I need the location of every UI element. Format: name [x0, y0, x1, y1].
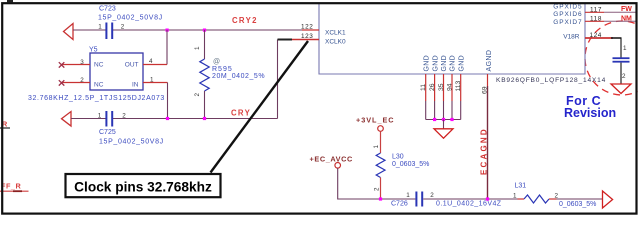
- junction: [486, 197, 489, 200]
- svg-text:CRY2: CRY2: [232, 16, 258, 25]
- no-connect X pin 2: [59, 80, 65, 85]
- inductor L30: [373, 131, 429, 199]
- svg-text:11: 11: [420, 84, 427, 91]
- wire to crystal OUT: [166, 30, 168, 65]
- svg-text:0.1U_0402_16V4Z: 0.1U_0402_16V4Z: [436, 201, 502, 208]
- wire from +EC_AVCC: [338, 168, 416, 199]
- capacitor C725: [98, 111, 164, 146]
- capacitor C726: [391, 192, 502, 208]
- GND pin 113: [455, 55, 465, 119]
- svg-text:1: 1: [406, 192, 410, 199]
- ground at V18R cap: [611, 84, 631, 94]
- no-connect X pin 3: [59, 62, 65, 67]
- pin 123 XCLK0: [278, 39, 320, 41]
- svg-text:2: 2: [430, 192, 434, 199]
- svg-text:ECAGND: ECAGND: [480, 127, 489, 175]
- svg-text:113: 113: [455, 80, 462, 91]
- svg-text:XCLK0: XCLK0: [325, 39, 346, 46]
- capacitor at V18R: [613, 45, 630, 80]
- svg-text:GPXID5: GPXID5: [553, 4, 582, 11]
- wire crystal IN down: [167, 83, 169, 119]
- svg-text:0_0603_5%: 0_0603_5%: [392, 161, 429, 168]
- svg-text:20M_0402_5%: 20M_0402_5%: [212, 73, 265, 80]
- junction: [433, 118, 436, 121]
- inductor L31: [513, 183, 596, 209]
- junction: [203, 117, 206, 120]
- resistor R595: [194, 30, 265, 119]
- svg-text:118: 118: [590, 15, 602, 22]
- svg-text:1: 1: [98, 24, 102, 31]
- svg-text:1: 1: [194, 46, 201, 50]
- svg-text:GND: GND: [450, 55, 457, 71]
- wire V18R down: [620, 38, 622, 58]
- pin 124 V18R: [585, 37, 613, 39]
- pin 117 GPXID6: [585, 11, 604, 13]
- net label ECAGND: [480, 127, 489, 175]
- svg-text:32.768KHZ_12.5P_1TJS125DJ2A073: 32.768KHZ_12.5P_1TJS125DJ2A073: [28, 95, 165, 102]
- pin 69 AGND: [487, 74, 489, 86]
- wire CRY right of C725: [113, 118, 278, 120]
- svg-text:C723: C723: [99, 6, 116, 13]
- crystal Y5: [89, 47, 143, 91]
- svg-text:3: 3: [80, 59, 84, 66]
- wire cap down: [620, 63, 622, 84]
- svg-text:Revision: Revision: [564, 106, 616, 120]
- capacitor C723: [98, 6, 163, 40]
- svg-text:94: 94: [447, 83, 454, 91]
- svg-text:35: 35: [438, 83, 445, 91]
- svg-text:1: 1: [98, 113, 102, 120]
- svg-text:GND: GND: [423, 55, 430, 71]
- svg-text:+3VL_EC: +3VL_EC: [356, 116, 395, 125]
- GND pin 11: [420, 55, 430, 119]
- pin 4 OUT lead: [143, 64, 167, 66]
- svg-text:Clock pins 32.768khz: Clock pins 32.768khz: [74, 180, 212, 195]
- wire L31 to off-page: [557, 198, 603, 200]
- svg-text:0_0603_5%: 0_0603_5%: [559, 201, 596, 208]
- EC controller block KB926QFB0: [319, 3, 585, 75]
- junction: [450, 118, 453, 121]
- svg-text:L30: L30: [392, 154, 404, 161]
- junction: [379, 197, 382, 200]
- GND pin 35: [438, 55, 448, 119]
- svg-text:124: 124: [590, 32, 602, 39]
- GND pin 26: [429, 55, 439, 119]
- svg-text:1: 1: [623, 45, 627, 52]
- svg-text:4: 4: [149, 58, 153, 65]
- pin 118 GPXID7: [585, 20, 604, 22]
- pin 3 lead: [61, 64, 90, 66]
- provision note dashed circle: [585, 21, 640, 95]
- svg-text:C725: C725: [99, 129, 116, 136]
- svg-text:GPXID7: GPXID7: [553, 19, 582, 26]
- wire CRY: [71, 118, 106, 120]
- svg-text:NC: NC: [94, 62, 104, 69]
- wire CRY up to pin 123: [277, 40, 279, 119]
- svg-text:2: 2: [194, 93, 201, 97]
- svg-text:OUT: OUT: [125, 62, 139, 69]
- svg-text:1: 1: [513, 193, 517, 200]
- svg-text:2: 2: [121, 24, 125, 31]
- junction: [203, 29, 206, 32]
- svg-text:15P_0402_50V8J: 15P_0402_50V8J: [99, 139, 164, 146]
- svg-text:NC: NC: [94, 82, 104, 89]
- off-page connector CRY left: [62, 112, 72, 127]
- junction: [166, 117, 169, 120]
- junction: [166, 29, 169, 32]
- wire CRY2 right of C723: [113, 29, 302, 31]
- svg-text:1: 1: [150, 77, 154, 84]
- svg-text:2: 2: [622, 73, 626, 80]
- off-page connector right: [603, 191, 613, 208]
- svg-text:R595: R595: [212, 66, 233, 73]
- svg-text:15P_0402_50V8J: 15P_0402_50V8J: [98, 15, 163, 22]
- svg-text:+EC_AVCC: +EC_AVCC: [310, 155, 354, 164]
- GND bus wire: [426, 119, 461, 121]
- svg-text:2: 2: [374, 187, 381, 191]
- svg-text:KB926QFB0_LQFP128_14X14: KB926QFB0_LQFP128_14X14: [496, 77, 606, 84]
- callout leader line: [211, 41, 309, 173]
- svg-text:2: 2: [555, 192, 559, 199]
- svg-text:2: 2: [122, 113, 126, 120]
- wire CRY2: [73, 29, 106, 31]
- off-page connector CRY2 left: [64, 24, 74, 40]
- ground: [434, 129, 453, 138]
- svg-text:L31: L31: [515, 183, 527, 190]
- svg-text:FW: FW: [621, 6, 632, 13]
- svg-text:@: @: [213, 59, 220, 66]
- svg-text:XCLK1: XCLK1: [325, 30, 346, 37]
- wire C726 to ECAGND: [423, 198, 517, 200]
- callout box Clock pins: [66, 174, 221, 197]
- svg-text:2: 2: [80, 77, 84, 84]
- svg-text:NM: NM: [621, 15, 632, 22]
- svg-text:GND: GND: [441, 55, 448, 71]
- junction: [442, 118, 445, 121]
- pin 2 lead: [61, 82, 90, 84]
- svg-text:FF_R: FF_R: [1, 182, 21, 191]
- wire ECAGND: [487, 86, 489, 199]
- svg-text:26: 26: [429, 83, 436, 91]
- svg-text:CRY: CRY: [231, 109, 251, 118]
- svg-text:C726: C726: [391, 201, 408, 208]
- svg-text:GND: GND: [432, 55, 439, 71]
- svg-text:117: 117: [590, 6, 602, 13]
- pin 1 IN lead: [143, 82, 168, 84]
- svg-text:GND: GND: [458, 55, 465, 71]
- ground stem: [443, 120, 445, 129]
- svg-text:1: 1: [373, 145, 380, 149]
- svg-text:123: 123: [301, 33, 313, 40]
- svg-text:122: 122: [301, 23, 313, 30]
- svg-text:Y5: Y5: [89, 47, 98, 54]
- svg-text:IN: IN: [132, 82, 139, 89]
- GND pin 94: [447, 55, 457, 119]
- svg-text:GPXID6: GPXID6: [553, 11, 582, 18]
- pin 122 XCLK1: [302, 29, 319, 31]
- svg-text:AGND: AGND: [486, 50, 493, 72]
- svg-text:V18R: V18R: [563, 33, 580, 40]
